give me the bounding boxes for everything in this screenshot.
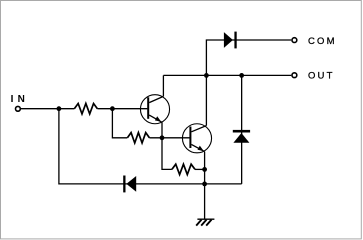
junction OUT-zener	[239, 73, 244, 78]
diode D2	[123, 176, 136, 193]
diode D1	[224, 32, 237, 49]
wire Q1 collector up to OUT line	[162, 75, 164, 96]
svg-text:OUT: OUT	[308, 70, 333, 81]
wire left drop and bottom line	[59, 109, 242, 184]
svg-text:COM: COM	[308, 36, 335, 47]
wire Q2 emitter down through C and D to ground	[204, 152, 206, 219]
resistor R3	[172, 164, 195, 174]
wire node B drop to R3	[162, 138, 172, 170]
ground	[196, 219, 214, 225]
resistor R2	[127, 133, 149, 143]
junction OUT-collector	[204, 73, 209, 78]
junction node C	[202, 167, 207, 172]
terminal OUT	[292, 73, 297, 78]
terminal IN	[16, 106, 21, 111]
wire Q2 collector up through OUT line to COM corner and COM line	[206, 40, 291, 126]
wire zener drop OUT line to bottom line	[241, 75, 243, 183]
junction node D	[202, 182, 207, 187]
resistor R1	[74, 104, 97, 114]
transistor Q1	[140, 95, 169, 124]
terminal COM	[292, 38, 297, 43]
wire R1 to Q1 base	[97, 108, 147, 110]
junction node B	[160, 135, 165, 140]
wire node A drop to R2	[112, 109, 127, 138]
junction node A	[110, 106, 115, 111]
wire R3 to node C	[195, 168, 205, 170]
wire IN terminal to R1	[21, 108, 74, 110]
wire OUT line	[163, 74, 291, 76]
junction left drop	[57, 106, 62, 111]
wire R2 to Q2 base through node B	[149, 137, 190, 139]
diode D3	[233, 130, 250, 143]
wire Q1 emitter drop to node B	[161, 122, 163, 138]
transistor Q2	[182, 124, 211, 153]
svg-text:I N: I N	[11, 94, 25, 105]
